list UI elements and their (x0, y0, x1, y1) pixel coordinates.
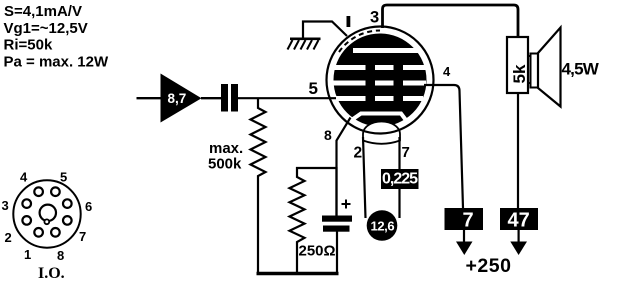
wire below box 7 (463, 230, 465, 243)
svg-text:12,6: 12,6 (371, 219, 395, 234)
svg-text:Pa = max. 12W: Pa = max. 12W (4, 54, 109, 71)
tube internal dashed lead pin1 (339, 30, 380, 52)
svg-text:3: 3 (370, 9, 379, 27)
wire ground to pin 1 (303, 22, 347, 40)
svg-text:8: 8 (324, 127, 332, 143)
svg-text:8,7: 8,7 (168, 91, 187, 106)
svg-text:5k: 5k (510, 64, 529, 83)
output transformer 5k (507, 37, 529, 93)
cathode resistor 250ohm (290, 167, 336, 274)
grid resistor max. 500k (208, 99, 266, 272)
svg-text:2: 2 (354, 145, 363, 162)
pin 1 label (347, 16, 351, 27)
screen current box 47 (500, 208, 538, 232)
cathode capacitor 2500uF with + (322, 167, 352, 274)
svg-text:250Ω: 250Ω (299, 243, 336, 260)
tube V1 envelope (327, 27, 434, 134)
svg-text:Vg1=~12,5V: Vg1=~12,5V (4, 20, 88, 37)
svg-text:8: 8 (57, 248, 64, 263)
coupling capacitor C1 (221, 84, 238, 112)
svg-text:2: 2 (5, 230, 12, 245)
svg-text:Ri=50k: Ri=50k (4, 36, 53, 53)
svg-text:I.O.: I.O. (38, 265, 65, 282)
socket pin circles (22, 187, 71, 236)
wire cathode loop top (296, 167, 337, 169)
socket outline (13, 180, 80, 247)
wire triangle to capacitor (201, 97, 221, 99)
svg-text:1: 1 (24, 247, 31, 262)
svg-text:4: 4 (20, 170, 28, 185)
wire below box 47 (517, 230, 519, 243)
svg-text:5: 5 (309, 79, 318, 98)
speaker 4,5W (531, 28, 600, 107)
anode bar (353, 48, 420, 53)
svg-text:7: 7 (402, 144, 410, 161)
svg-text:500k: 500k (208, 156, 242, 173)
svg-text:max.: max. (209, 140, 243, 157)
svg-text:3: 3 (2, 198, 9, 213)
grid row 1 (334, 65, 426, 70)
svg-text:S=4,1mA/V: S=4,1mA/V (4, 3, 82, 20)
svg-text:5: 5 (60, 170, 67, 185)
svg-text:7: 7 (79, 229, 86, 244)
heater voltage circle 12,6 (367, 210, 398, 241)
arrow below box 47 (510, 242, 527, 256)
bottom rail wire (257, 272, 339, 276)
wire input stub (137, 97, 162, 99)
svg-text:+250: +250 (466, 255, 512, 277)
svg-text:47: 47 (508, 210, 530, 232)
svg-text:6: 6 (85, 199, 92, 214)
speaker stubs (528, 55, 531, 57)
anode current box 7 (445, 208, 484, 232)
wire capacitor to grid pin 5 (238, 97, 336, 99)
wire 5k to rail 47 (517, 93, 519, 208)
socket key (40, 205, 56, 225)
svg-text:7: 7 (463, 210, 474, 232)
heater bump (363, 121, 400, 143)
grid row 3 (336, 96, 423, 101)
cathode current box 0,225 (381, 169, 419, 189)
svg-text:0,225: 0,225 (382, 171, 418, 188)
grid row 2 (334, 81, 427, 86)
tube electrode block (334, 34, 427, 127)
pin 7 wire (398, 137, 400, 218)
cathode chevron (352, 114, 406, 121)
svg-text:4: 4 (443, 64, 451, 79)
pin 3 stub and anode top wire to output (383, 5, 519, 38)
input source triangle 8,7 (161, 74, 202, 123)
pin 2 wire (363, 137, 366, 218)
arrow below box 7 (456, 242, 473, 256)
pin 8 lead from cathode (337, 118, 351, 217)
pin 4 wire (424, 85, 463, 208)
ground symbol (288, 39, 321, 50)
svg-text:4,5W: 4,5W (562, 60, 600, 79)
